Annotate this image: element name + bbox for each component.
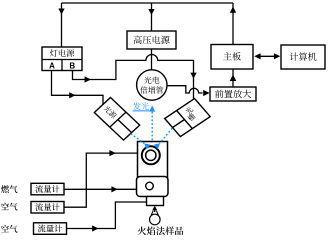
label 空气 air 1 xyxy=(1,203,17,211)
label 发光 blue xyxy=(133,102,149,110)
arrowhead right on air line lower xyxy=(92,225,98,231)
blue arrowhead toward left lamp xyxy=(144,143,150,149)
svg-text:B: B xyxy=(69,61,75,70)
label 主板 xyxy=(223,52,241,60)
svg-text:A: A xyxy=(49,61,55,70)
arrowhead up sample intake xyxy=(152,206,157,211)
dashed ray to left lamp xyxy=(131,134,144,144)
label 火焰法样品 xyxy=(138,226,184,235)
right lamp assembly 光栅 xyxy=(165,99,211,137)
label 倍增管 xyxy=(140,86,163,93)
wire sample intake xyxy=(154,209,156,212)
sample bulb xyxy=(150,214,161,225)
label 前置放大 xyxy=(215,90,251,98)
burner outer ring xyxy=(142,146,160,164)
arrowhead down into lamp power supply xyxy=(58,9,64,15)
flow meter 1 box 流量计 xyxy=(31,183,64,195)
wire main board to computer xyxy=(256,55,279,57)
preamplifier box 前置放大 xyxy=(210,87,256,101)
label 光源 left xyxy=(103,105,117,119)
high voltage supply box 高压电源 xyxy=(127,31,176,49)
sample bulb neck xyxy=(151,211,158,215)
wire PMT to preamp xyxy=(166,86,203,93)
arrowhead into preamp xyxy=(203,90,209,96)
wire main board riser to bus xyxy=(232,3,234,45)
dashed ray to right lamp xyxy=(160,128,173,143)
arrowhead right on air line upper xyxy=(109,150,115,156)
label 光 right lamp char1 xyxy=(184,106,193,115)
wire bus drop to HV supply xyxy=(151,3,153,31)
flow meter 2 box 流量计 xyxy=(31,202,64,214)
left lamp assembly 光源 xyxy=(94,98,139,141)
wire HV supply to PMT xyxy=(151,49,153,70)
arrowhead up toward bus xyxy=(230,7,236,13)
wire preamp to main board xyxy=(232,69,234,87)
mixing chamber rounded box xyxy=(137,177,169,197)
arrowhead right into computer xyxy=(274,53,280,59)
label 光电 xyxy=(144,77,159,84)
arrowhead left into main board xyxy=(254,53,260,59)
arrowhead up into main board xyxy=(230,75,237,82)
photomultiplier tube circle 光电倍增管 xyxy=(137,70,167,100)
burner inner ring xyxy=(146,150,156,160)
label 流量计 1 xyxy=(35,185,59,193)
arrowhead right on fuel gas line xyxy=(111,186,117,192)
wire A terminal to left lamp xyxy=(52,71,104,105)
arrowhead down on wire B to right lamp xyxy=(190,73,196,79)
burner chamber main box xyxy=(138,142,168,179)
label 计算机 xyxy=(290,52,317,60)
wire flowmeter1 to burner xyxy=(64,188,137,190)
label 高压电源 xyxy=(134,36,170,45)
label 燃气 fuel gas xyxy=(1,185,17,193)
blue arrowhead up 发光 xyxy=(149,106,155,112)
label 空气 air 2 xyxy=(1,225,17,233)
wire flowmeter3 to burner foot xyxy=(66,202,147,229)
underline of 发光 xyxy=(133,110,150,112)
nebulizer port circle xyxy=(146,182,154,190)
lamp power supply box 灯电源 with A B cells xyxy=(42,47,82,71)
label 流量计 2 xyxy=(35,203,59,211)
computer box 计算机 xyxy=(281,45,325,69)
emitted light dashed ray up to PMT xyxy=(151,112,153,141)
arrowhead down into HV supply xyxy=(148,9,154,15)
label 栅 right lamp char2 xyxy=(187,112,197,122)
flow meter 3 box 流量计 xyxy=(34,223,67,235)
label 流量计 3 xyxy=(38,224,62,232)
wire flowmeter2 to burner upper inlet xyxy=(64,153,138,207)
arrowhead right on wire A xyxy=(69,92,75,98)
main board box 主板 xyxy=(211,45,253,70)
burner foot block xyxy=(147,197,164,206)
arrowhead right on wire B xyxy=(85,76,91,82)
wire top power bus xyxy=(62,2,234,4)
blue arrowhead toward right lamp xyxy=(154,143,160,149)
label 灯电源 xyxy=(50,49,74,57)
wire B terminal to right lamp xyxy=(73,55,194,100)
wire bus drop to lamp power supply xyxy=(61,3,63,47)
